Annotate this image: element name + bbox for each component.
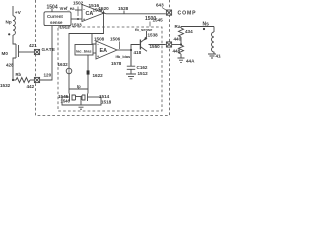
svg-text:Np: Np [6,20,12,25]
svg-text:M0: M0 [2,51,9,56]
svg-text:1514: 1514 [99,94,110,99]
svg-text:1503: 1503 [72,23,83,28]
svg-text:GATE: GATE [42,47,56,52]
svg-text:1622: 1622 [93,73,104,78]
svg-text:1508: 1508 [94,37,105,42]
svg-text:COMP: COMP [178,11,197,17]
svg-text:440: 440 [174,37,182,42]
svg-text:448: 448 [173,49,181,54]
svg-text:1512: 1512 [138,71,149,76]
svg-text:Rb: Rb [16,72,22,77]
svg-text:434: 434 [185,29,193,34]
svg-text:428: 428 [6,63,14,68]
svg-text:1632: 1632 [58,62,69,67]
svg-text:44A: 44A [186,59,195,64]
svg-text:Ip: Ip [77,84,81,89]
svg-text:Iac_bias: Iac_bias [76,48,91,53]
svg-text:1578: 1578 [111,61,122,66]
svg-text:+: + [83,18,85,22]
svg-text:1550: 1550 [150,44,161,49]
svg-text:−: − [83,8,85,12]
svg-text:1528: 1528 [118,6,129,11]
svg-text:1546: 1546 [61,99,71,104]
svg-text:442: 442 [27,84,35,89]
svg-text:fb_sense: fb_sense [135,27,153,32]
svg-text:Vref_ea: Vref_ea [60,6,76,11]
svg-text:+V: +V [15,10,22,16]
svg-text:418: 418 [216,54,222,59]
svg-text:−: − [97,43,99,47]
svg-text:C162: C162 [137,65,148,70]
svg-text:1512: 1512 [60,25,71,30]
svg-text:1502: 1502 [73,1,84,6]
svg-text:643: 643 [156,3,164,8]
svg-text:EA: EA [100,48,108,54]
svg-text:421: 421 [29,43,37,48]
svg-text:1518: 1518 [101,100,112,105]
svg-text:1506: 1506 [110,37,121,42]
svg-text:1504: 1504 [47,5,58,11]
svg-text:1538: 1538 [148,33,159,38]
svg-text:418: 418 [134,50,142,55]
svg-text:1532: 1532 [0,83,11,88]
svg-text:Current: Current [47,14,63,19]
svg-text:1500: 1500 [145,16,156,22]
svg-text:Ra: Ra [175,24,181,29]
svg-text:1520: 1520 [99,6,110,11]
svg-text:CA: CA [86,11,94,17]
svg-text:Ifb_bias: Ifb_bias [116,54,131,59]
svg-text:Ns: Ns [203,22,210,28]
svg-text:120: 120 [44,73,52,78]
svg-text:+: + [97,55,99,59]
